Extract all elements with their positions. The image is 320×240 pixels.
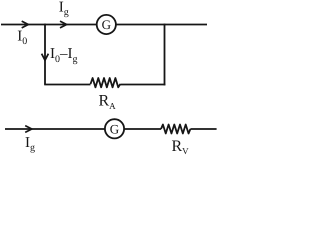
svg-text:Ig: Ig (59, 0, 69, 18)
resistor RA (shunt) zigzag (91, 78, 121, 87)
svg-text:RV: RV (172, 138, 190, 156)
galvanometer G (top circuit) (97, 15, 116, 34)
svg-text:G: G (102, 17, 111, 32)
svg-text:I0–Ig: I0–Ig (50, 46, 78, 65)
svg-text:I0: I0 (17, 28, 27, 47)
wire: right shunt branch vertical (up to output lead) (164, 24, 166, 86)
label Ig (top circuit) (59, 0, 69, 18)
arrow: current Ig toward galvanometer (60, 21, 67, 28)
wire: bottom circuit input lead (5, 128, 105, 130)
wire: top circuit input lead (left to galvanometer) (1, 24, 97, 26)
wire: galvanometer to series resistor RV (124, 128, 161, 130)
wire: shunt bottom left lead (44, 84, 90, 86)
label I0 (17, 28, 27, 47)
galvanometer G (bottom circuit) (105, 119, 124, 138)
wire: shunt bottom right lead (120, 84, 165, 86)
arrow: current I0 direction on input lead (22, 21, 29, 28)
label Ig (bottom circuit) (25, 135, 35, 154)
wire: left shunt branch vertical (junction down) (44, 24, 46, 85)
svg-text:RA: RA (99, 92, 117, 110)
wire: top circuit output lead (galvanometer to right) (116, 24, 207, 26)
wire: RV output lead to right edge (190, 128, 216, 130)
svg-text:G: G (110, 121, 119, 136)
arrow: current Ig direction (bottom circuit) (25, 126, 32, 133)
resistor RV (series multiplier) zigzag (161, 125, 190, 134)
label I0-Ig (50, 46, 78, 65)
label RV (172, 138, 190, 156)
label RA (99, 92, 117, 110)
arrow: current I0-Ig into shunt branch (42, 54, 49, 61)
svg-text:Ig: Ig (25, 135, 35, 154)
